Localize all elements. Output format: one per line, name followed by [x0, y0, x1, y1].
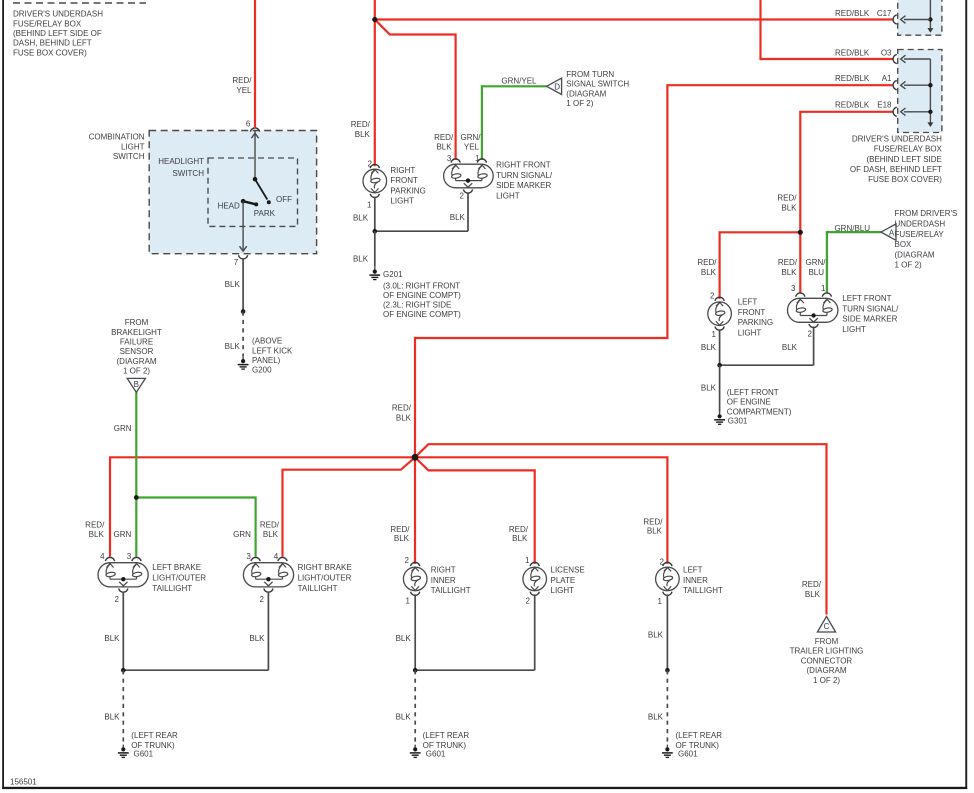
connector D from turn signal switch — [547, 70, 630, 108]
svg-text:1 OF 2): 1 OF 2) — [123, 367, 150, 376]
svg-text:C: C — [824, 622, 830, 631]
svg-text:FRONT: FRONT — [390, 176, 418, 185]
svg-text:1 OF 2): 1 OF 2) — [813, 676, 840, 685]
svg-text:3: 3 — [246, 552, 251, 561]
svg-text:O3: O3 — [881, 49, 892, 58]
wire BLK left front parking to junction — [701, 329, 720, 365]
svg-text:COMPARTMENT): COMPARTMENT) — [727, 408, 792, 417]
svg-text:LEFT KICK: LEFT KICK — [252, 346, 293, 355]
svg-text:TAILLIGHT: TAILLIGHT — [152, 584, 192, 593]
pin 6 of headlight switch — [246, 119, 260, 131]
svg-text:TRAILER LIGHTING: TRAILER LIGHTING — [790, 647, 864, 656]
svg-text:2: 2 — [808, 329, 813, 338]
svg-text:BLK: BLK — [225, 280, 241, 289]
svg-text:GRN/: GRN/ — [461, 133, 482, 142]
lamp left inner taillight — [656, 557, 723, 606]
svg-text:BLK: BLK — [353, 214, 369, 223]
node BLK junction rear right — [665, 668, 670, 673]
svg-text:LIGHT: LIGHT — [551, 586, 575, 595]
ground G301 — [714, 388, 792, 426]
svg-text:(BEHIND LEFT SIDE OF: (BEHIND LEFT SIDE OF — [13, 29, 102, 38]
lamp left front turn signal/side marker light — [788, 284, 900, 339]
svg-text:OF ENGINE: OF ENGINE — [727, 398, 771, 407]
wire BLK dashed to G200 — [225, 312, 243, 357]
svg-text:(DIAGRAM: (DIAGRAM — [117, 357, 157, 366]
wire BLK to G201 — [353, 231, 375, 267]
svg-text:BLK: BLK — [353, 255, 369, 264]
wire GRN to right brake light pin 3 — [114, 498, 256, 557]
node top distribution junction — [372, 17, 377, 22]
svg-text:BLK: BLK — [394, 534, 410, 543]
fuse/relay box (top-left, cut off) — [13, 2, 146, 4]
svg-text:PANEL): PANEL) — [252, 356, 281, 365]
svg-text:TURN SIGNAL/: TURN SIGNAL/ — [496, 171, 553, 180]
svg-text:YEL: YEL — [464, 143, 480, 152]
svg-text:OF ENGINE COMPT): OF ENGINE COMPT) — [383, 291, 461, 300]
svg-text:OF ENGINE COMPT): OF ENGINE COMPT) — [383, 310, 461, 319]
wire RED/BLK diagonal to right front turn signal pin 3 — [375, 20, 456, 160]
svg-text:TAILLIGHT: TAILLIGHT — [298, 584, 338, 593]
svg-text:G200: G200 — [252, 366, 272, 375]
svg-text:BLK: BLK — [355, 130, 371, 139]
svg-text:1 OF 2): 1 OF 2) — [895, 261, 922, 270]
svg-text:YEL: YEL — [236, 86, 252, 95]
lamp right brake light/outer taillight — [243, 552, 351, 604]
svg-text:FROM: FROM — [815, 637, 839, 646]
svg-text:LIGHT: LIGHT — [121, 142, 145, 151]
svg-text:1 OF 2): 1 OF 2) — [566, 99, 593, 108]
svg-text:BLK: BLK — [104, 713, 120, 722]
svg-text:1: 1 — [821, 284, 826, 293]
wire GRN/YEL from turn signal switch to right front turn signal pin 1 — [461, 77, 547, 160]
wire RED/BLK to trailer lighting connector — [415, 444, 827, 614]
svg-text:GRN/BLU: GRN/BLU — [834, 224, 870, 233]
svg-text:BOX: BOX — [895, 240, 913, 249]
svg-text:RED/BLK: RED/BLK — [835, 74, 870, 83]
svg-text:3: 3 — [447, 154, 452, 163]
svg-text:7: 7 — [234, 258, 239, 267]
svg-text:G201: G201 — [383, 270, 403, 279]
svg-text:HEADLIGHT: HEADLIGHT — [158, 157, 204, 166]
svg-text:DRIVER'S UNDERDASH: DRIVER'S UNDERDASH — [13, 10, 103, 19]
ground G200 — [238, 337, 293, 375]
wire RED/YEL from fuse box to headlight switch pin 6 — [232, 0, 255, 127]
wire RED/BLK to right inner taillight pin 2 — [390, 457, 415, 564]
svg-text:RIGHT BRAKE: RIGHT BRAKE — [298, 563, 352, 572]
svg-text:LIGHT: LIGHT — [738, 328, 762, 337]
wire BLK right front parking light to junction — [353, 197, 375, 232]
svg-text:DASH, BEHIND LEFT: DASH, BEHIND LEFT — [13, 39, 92, 48]
svg-text:FUSE BOX COVER): FUSE BOX COVER) — [868, 175, 942, 184]
node BLK junction rear left — [121, 668, 126, 673]
svg-text:1: 1 — [525, 556, 530, 565]
svg-text:2: 2 — [526, 597, 531, 606]
wire BLK junction bar left front — [720, 364, 814, 366]
svg-text:FROM DRIVER'S: FROM DRIVER'S — [895, 209, 958, 218]
svg-text:FUSE/RELAY: FUSE/RELAY — [895, 230, 945, 239]
ground G601 (brake lights) — [118, 731, 178, 758]
wire BLK junction bar rear middle — [415, 669, 535, 671]
wire BLK dashed to G601 (left inner) — [648, 670, 668, 744]
svg-text:SIDE MARKER: SIDE MARKER — [842, 315, 897, 324]
svg-text:BLK: BLK — [701, 268, 717, 277]
svg-text:BLK: BLK — [396, 713, 412, 722]
svg-text:BLK: BLK — [436, 143, 452, 152]
svg-text:156501: 156501 — [10, 778, 37, 787]
svg-text:RED/: RED/ — [643, 518, 663, 527]
svg-text:BLK: BLK — [450, 213, 466, 222]
svg-text:(BEHIND LEFT SIDE: (BEHIND LEFT SIDE — [866, 155, 941, 164]
svg-text:BLK: BLK — [648, 631, 664, 640]
node GRN junction — [134, 495, 139, 500]
svg-text:D: D — [554, 83, 560, 92]
svg-text:OF DASH, BEHIND LEFT: OF DASH, BEHIND LEFT — [850, 165, 942, 174]
lamp left front parking light — [708, 291, 773, 339]
ground G201 — [369, 267, 461, 319]
svg-text:SIGNAL SWITCH: SIGNAL SWITCH — [566, 80, 629, 89]
svg-text:G301: G301 — [728, 417, 748, 426]
svg-text:RED/BLK: RED/BLK — [835, 49, 870, 58]
svg-text:2: 2 — [660, 557, 665, 566]
svg-text:(LEFT REAR: (LEFT REAR — [676, 731, 723, 740]
lamp right front parking light — [363, 159, 426, 209]
svg-text:GRN/YEL: GRN/YEL — [501, 77, 537, 86]
svg-text:RED/: RED/ — [777, 194, 797, 203]
svg-text:2: 2 — [260, 595, 265, 604]
svg-text:TAILLIGHT: TAILLIGHT — [431, 586, 471, 595]
svg-text:BLK: BLK — [512, 534, 528, 543]
node BLK junction below switch — [241, 309, 246, 314]
svg-text:RED/: RED/ — [85, 521, 105, 530]
svg-text:RED/: RED/ — [778, 258, 798, 267]
svg-text:RED/BLK: RED/BLK — [835, 101, 870, 110]
svg-text:(DIAGRAM: (DIAGRAM — [807, 666, 847, 675]
wire BLK right inner taillight to junction — [396, 594, 416, 670]
node central junction — [412, 454, 419, 461]
svg-text:FUSE BOX COVER): FUSE BOX COVER) — [13, 48, 87, 57]
svg-text:B: B — [134, 380, 139, 389]
svg-text:RED/: RED/ — [260, 521, 280, 530]
svg-text:(DIAGRAM: (DIAGRAM — [895, 250, 935, 259]
svg-text:RIGHT: RIGHT — [431, 566, 456, 575]
svg-text:LEFT BRAKE: LEFT BRAKE — [152, 563, 201, 572]
svg-text:SENSOR: SENSOR — [120, 347, 154, 356]
svg-text:BLK: BLK — [104, 634, 120, 643]
svg-text:1: 1 — [475, 154, 480, 163]
svg-text:4: 4 — [274, 552, 279, 561]
svg-text:FROM TURN: FROM TURN — [566, 70, 614, 79]
svg-text:PARK: PARK — [254, 209, 276, 218]
label from brakelight failure sensor — [111, 318, 162, 376]
svg-text:SWITCH: SWITCH — [113, 152, 145, 161]
wire GRN/BLU from fuse/relay box to left front turn signal pin 1 — [806, 224, 882, 293]
wire BLK left inner taillight to junction — [648, 594, 668, 670]
svg-text:2: 2 — [368, 159, 373, 168]
svg-text:BLK: BLK — [249, 634, 265, 643]
wire RED/BLK vertical to right front parking light — [351, 0, 375, 166]
svg-text:LICENSE: LICENSE — [551, 566, 585, 575]
svg-text:PLATE: PLATE — [551, 576, 576, 585]
svg-text:BLK: BLK — [647, 527, 663, 536]
wire RED/BLK to left inner taillight pin 2 — [415, 457, 667, 564]
svg-text:FUSE/RELAY BOX: FUSE/RELAY BOX — [13, 19, 82, 28]
wire RED/BLK from connector E18 to left front lights — [777, 112, 892, 293]
svg-text:LIGHT: LIGHT — [842, 325, 866, 334]
lamp right inner taillight — [403, 556, 470, 606]
svg-text:TURN SIGNAL/: TURN SIGNAL/ — [842, 304, 899, 313]
svg-text:COMBINATION: COMBINATION — [89, 133, 145, 142]
svg-text:LIGHT/OUTER: LIGHT/OUTER — [298, 574, 352, 583]
wire BLK from pin 7 — [225, 260, 243, 312]
svg-text:1: 1 — [658, 597, 663, 606]
svg-text:DRIVER'S UNDERDASH: DRIVER'S UNDERDASH — [852, 134, 942, 143]
svg-text:SIDE MARKER: SIDE MARKER — [496, 181, 551, 190]
svg-text:GRN: GRN — [114, 424, 132, 433]
wire BLK license plate light to junction — [534, 594, 536, 670]
svg-text:RED/: RED/ — [434, 133, 454, 142]
wire BLK left brake light to junction — [104, 592, 123, 670]
svg-text:(ABOVE: (ABOVE — [252, 337, 282, 346]
svg-text:BLK: BLK — [781, 203, 797, 212]
svg-text:BLU: BLU — [808, 268, 824, 277]
wire BLK junction bar rear left — [123, 669, 268, 671]
svg-text:3: 3 — [791, 284, 796, 293]
svg-text:BRAKELIGHT: BRAKELIGHT — [111, 328, 162, 337]
wire RED/BLK from connector A1 to central junction — [392, 85, 893, 457]
wire RED/BLK to right brake light pin 4 — [260, 457, 415, 556]
connector C from trailer lighting connector — [790, 616, 864, 684]
svg-text:1: 1 — [406, 597, 411, 606]
pin O3 — [835, 49, 897, 64]
lamp left brake light/outer taillight — [98, 552, 206, 604]
svg-text:LEFT: LEFT — [738, 298, 758, 307]
svg-text:BLK: BLK — [782, 343, 798, 352]
svg-text:GRN: GRN — [233, 530, 251, 539]
svg-text:RED/: RED/ — [351, 120, 371, 129]
pin E18 — [835, 101, 897, 117]
svg-text:INNER: INNER — [683, 576, 708, 585]
svg-text:RED/: RED/ — [697, 258, 717, 267]
svg-text:BLK: BLK — [225, 342, 241, 351]
svg-text:RED/: RED/ — [390, 525, 410, 534]
fuse/relay box C17 — [898, 0, 942, 35]
svg-text:6: 6 — [246, 119, 251, 128]
svg-text:(3.0L: RIGHT FRONT: (3.0L: RIGHT FRONT — [383, 281, 460, 290]
svg-text:RIGHT FRONT: RIGHT FRONT — [496, 161, 551, 170]
svg-text:GRN: GRN — [114, 530, 132, 539]
svg-text:2: 2 — [405, 556, 410, 565]
node BLK junction left front — [717, 363, 722, 368]
svg-text:BLK: BLK — [805, 590, 821, 599]
ground G601 (inner taillights) — [410, 731, 470, 758]
headlight switch internal wiring — [218, 131, 293, 251]
svg-text:INNER: INNER — [431, 576, 456, 585]
svg-text:1: 1 — [367, 201, 372, 210]
wire GRN from brakelight failure sensor to brake lights — [114, 392, 137, 556]
wire BLK junction bar — [375, 230, 468, 232]
svg-text:1: 1 — [712, 330, 717, 339]
svg-text:2: 2 — [710, 291, 715, 300]
svg-text:RIGHT: RIGHT — [390, 166, 415, 175]
svg-text:PARKING: PARKING — [390, 186, 425, 195]
svg-text:FROM: FROM — [125, 318, 149, 327]
ground G601 (left inner taillight) — [662, 731, 722, 758]
diagram number — [10, 778, 37, 787]
svg-text:G601: G601 — [134, 750, 154, 759]
svg-text:SWITCH: SWITCH — [172, 169, 204, 178]
svg-text:(2.3L: RIGHT SIDE: (2.3L: RIGHT SIDE — [383, 301, 451, 310]
svg-text:LIGHT: LIGHT — [496, 191, 520, 200]
svg-text:PARKING: PARKING — [738, 318, 773, 327]
wire RED/BLK to left front parking light pin 2 — [697, 232, 800, 299]
node BLK junction right front — [373, 229, 378, 234]
svg-text:BLK: BLK — [648, 713, 664, 722]
svg-text:BLK: BLK — [701, 343, 717, 352]
svg-text:FUSE/RELAY BOX: FUSE/RELAY BOX — [874, 145, 943, 154]
svg-text:FAILURE: FAILURE — [120, 338, 153, 347]
svg-text:2: 2 — [115, 595, 120, 604]
svg-text:G601: G601 — [426, 750, 446, 759]
label driver's underdash fuse/relay box (top-left) — [13, 10, 103, 58]
svg-text:LIGHT/OUTER: LIGHT/OUTER — [152, 574, 206, 583]
wire BLK dashed to G601 (left rear) — [104, 670, 123, 744]
svg-text:RED/: RED/ — [802, 580, 822, 589]
svg-text:BLK: BLK — [89, 530, 105, 539]
combination light switch box — [89, 131, 317, 254]
svg-text:FRONT: FRONT — [738, 308, 766, 317]
svg-text:(LEFT FRONT: (LEFT FRONT — [727, 388, 779, 397]
svg-text:RED/: RED/ — [392, 404, 412, 413]
svg-text:2: 2 — [459, 192, 464, 201]
wire BLK right brake light to junction — [249, 592, 268, 670]
svg-text:RED/: RED/ — [232, 76, 252, 85]
lamp license plate light — [523, 556, 585, 606]
lamp right front turn signal/side marker light — [444, 154, 553, 201]
node E18 branch junction — [798, 230, 803, 235]
svg-text:HEAD: HEAD — [218, 201, 240, 210]
svg-text:BLK: BLK — [396, 414, 412, 423]
svg-text:LEFT FRONT: LEFT FRONT — [842, 294, 891, 303]
svg-text:G601: G601 — [678, 750, 698, 759]
svg-text:OFF: OFF — [276, 195, 292, 204]
svg-text:BLK: BLK — [396, 634, 412, 643]
svg-text:BLK: BLK — [701, 384, 717, 393]
wire BLK to G301 — [701, 365, 720, 411]
pin 7 of headlight switch — [234, 255, 248, 267]
svg-text:RED/: RED/ — [509, 525, 529, 534]
pin A1 — [835, 74, 897, 90]
pin C17 — [835, 9, 897, 24]
svg-text:RED/BLK: RED/BLK — [835, 9, 870, 18]
svg-text:BLK: BLK — [781, 268, 797, 277]
wire RED/BLK to connector O3 — [761, 0, 893, 59]
svg-text:3: 3 — [127, 552, 132, 561]
svg-text:GRN/: GRN/ — [806, 258, 827, 267]
wire BLK left front turn signal to junction — [782, 327, 814, 366]
wire RED/BLK to connector C17 — [375, 18, 893, 20]
node BLK junction rear middle — [413, 668, 418, 673]
wire BLK right front turn signal to junction — [450, 193, 468, 232]
wire RED/BLK to left brake light pin 4 — [85, 457, 415, 556]
svg-text:E18: E18 — [877, 101, 892, 110]
svg-text:4: 4 — [100, 552, 105, 561]
svg-text:(LEFT REAR: (LEFT REAR — [423, 731, 470, 740]
svg-text:TAILLIGHT: TAILLIGHT — [683, 586, 723, 595]
connector A from driver's underdash fuse/relay box — [881, 209, 957, 270]
wire RED/BLK to license plate light pin 1 — [415, 457, 535, 564]
svg-text:LEFT: LEFT — [683, 566, 703, 575]
svg-text:CONNECTOR: CONNECTOR — [801, 656, 853, 665]
svg-text:(LEFT REAR: (LEFT REAR — [131, 731, 178, 740]
headlight switch inner box — [158, 157, 297, 227]
svg-text:(DIAGRAM: (DIAGRAM — [566, 89, 606, 98]
fuse/relay box O3/A1/E18 — [898, 50, 942, 133]
svg-text:UNDERDASH: UNDERDASH — [895, 220, 946, 229]
svg-text:BLK: BLK — [263, 530, 279, 539]
svg-text:A1: A1 — [882, 74, 892, 83]
svg-text:LIGHT: LIGHT — [390, 197, 414, 206]
connector B from brakelight failure sensor — [127, 378, 145, 392]
wire BLK dashed to G601 (middle) — [396, 670, 416, 744]
svg-text:C17: C17 — [877, 9, 892, 18]
label driver's underdash fuse/relay box (right) — [850, 134, 943, 184]
